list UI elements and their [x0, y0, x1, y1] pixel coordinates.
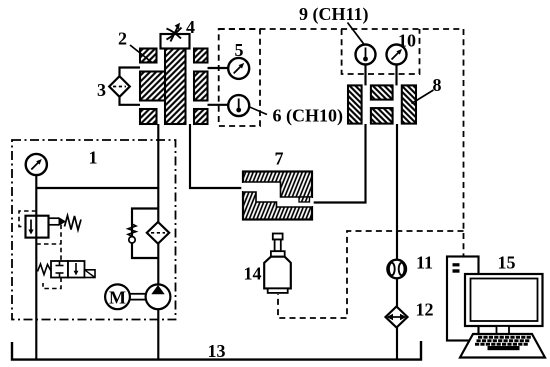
svg-text:8: 8 [433, 75, 442, 95]
stand [497, 326, 510, 334]
instrument dashed box around sensors 9 and 10 [342, 29, 420, 74]
orifice block 7 [241, 172, 313, 220]
transducer 14 [264, 234, 291, 293]
svg-text:15: 15 [498, 253, 516, 273]
wire pump pressure riser [157, 124, 159, 296]
wire block2 to gauge 5 [208, 67, 231, 69]
bypass check valve spring [128, 224, 136, 236]
leader 6 [249, 107, 268, 115]
wire block2 to valve7 [190, 124, 243, 188]
svg-text:7: 7 [275, 149, 284, 169]
svg-text:14: 14 [244, 264, 262, 284]
signal bus dashed right line to computer [463, 29, 465, 257]
wire block8 return to tank [396, 124, 398, 360]
wire valve7 to block8 [312, 124, 366, 203]
solenoid actuator [85, 270, 96, 278]
filter 3 [109, 76, 130, 97]
svg-text:1: 1 [89, 148, 98, 168]
wire block8 to sensor 9 [364, 64, 366, 85]
svg-text:6 (CH10): 6 (CH10) [273, 106, 344, 127]
relief valve outlet arrow [49, 217, 59, 219]
temperature sensor 9 [356, 45, 376, 65]
instrument dashed box around gauges 5 and 6 [219, 29, 260, 126]
solenoid valve body [51, 261, 68, 278]
flow meter 11 [387, 260, 406, 279]
power unit enclosure box 1 (dash-dot) [12, 140, 176, 320]
svg-text:12: 12 [416, 299, 434, 319]
relief valve body [26, 216, 49, 238]
svg-text:M: M [109, 287, 126, 307]
wire pump to tank [157, 297, 159, 360]
bypass check valve ball [129, 237, 135, 243]
signal bus dashed top line [219, 28, 464, 30]
leader 9 [348, 23, 365, 45]
signal dashed line items 11 12 [278, 231, 464, 318]
pilot dashed line to solenoid valve [36, 225, 61, 261]
pilot dashed drain below solenoid valve [43, 278, 61, 289]
svg-text:11: 11 [416, 252, 433, 272]
solenoid valve spring [38, 264, 52, 275]
wire bypass loop around filter [132, 209, 158, 259]
suction filter in box1 [147, 222, 169, 244]
wire pressure header in box 1 [36, 187, 158, 189]
keyboard [460, 334, 545, 358]
wire block8 to sensor 10 [395, 64, 397, 85]
cooler 12 [386, 307, 408, 328]
svg-text:9 (CH11): 9 (CH11) [299, 4, 369, 25]
gauge 5 [228, 58, 249, 79]
orifice block 8 [348, 85, 416, 123]
svg-text:2: 2 [118, 29, 127, 49]
svg-text:5: 5 [235, 40, 244, 60]
motor M [105, 284, 130, 309]
wire gauge riser in box 1 [35, 175, 37, 360]
pressure sensor 10 [387, 45, 407, 65]
svg-text:10: 10 [398, 31, 416, 51]
manifold block 2 [140, 49, 208, 125]
throttle valve 4 [161, 34, 190, 49]
tower [447, 257, 479, 341]
wire block2 to gauge 6 [208, 104, 231, 106]
monitor [465, 274, 543, 326]
temperature sensor 6 [228, 95, 249, 116]
relief valve spring [65, 216, 82, 231]
tank line 13 [12, 341, 421, 360]
wire filter 3 loop [120, 68, 141, 105]
svg-text:4: 4 [186, 17, 195, 37]
svg-text:3: 3 [97, 80, 106, 100]
shaft [130, 293, 145, 295]
computer 15 [447, 257, 545, 358]
pilot dashed line relief valve top [19, 211, 36, 227]
pump [146, 284, 171, 309]
svg-text:13: 13 [208, 341, 226, 361]
pressure gauge box1 [26, 154, 47, 175]
